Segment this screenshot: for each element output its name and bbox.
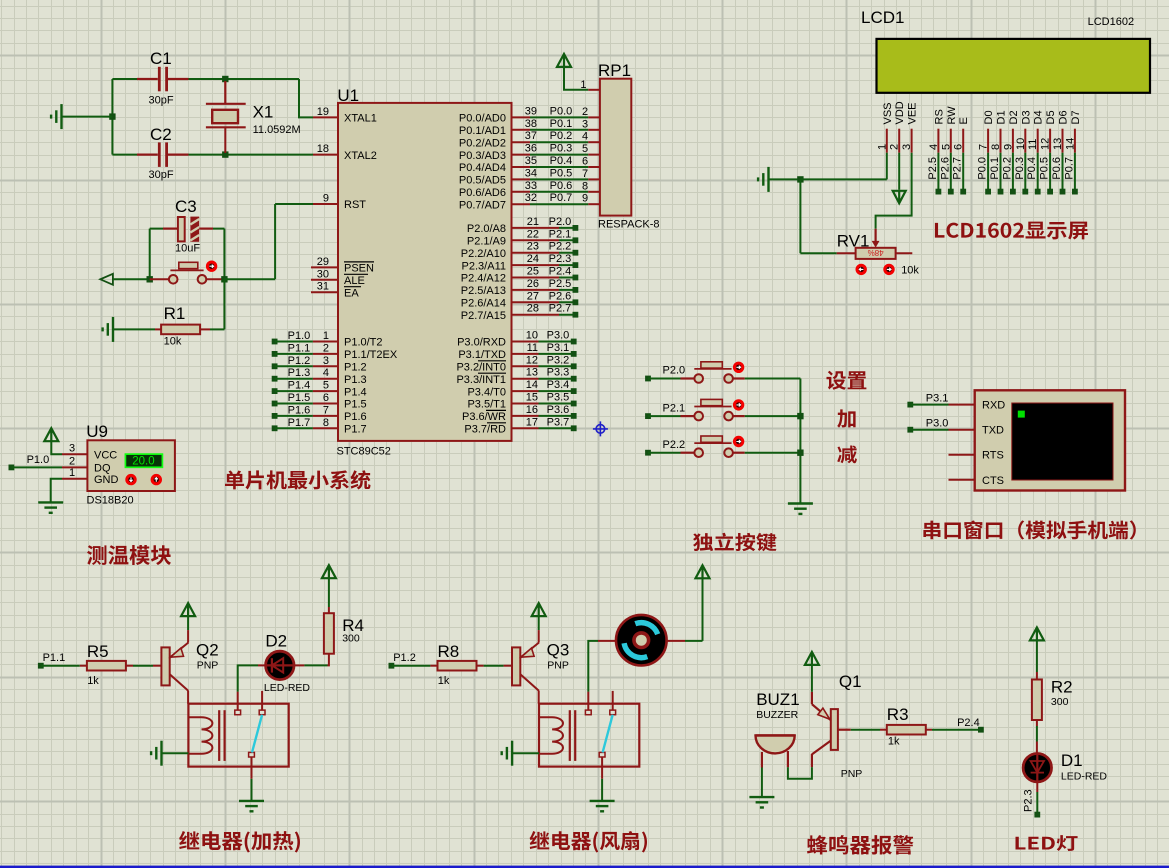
wire crystal top lead <box>224 81 226 104</box>
wire RV1 right lead <box>896 252 913 254</box>
wire C1 left <box>112 78 137 80</box>
wire to XTAL1 pin <box>299 79 313 117</box>
terminal P2.3 <box>1034 812 1040 818</box>
ground (RL2 switch) <box>590 801 615 811</box>
svg-text:RW: RW <box>946 106 958 125</box>
wire Q2 collector to relay <box>187 691 189 704</box>
svg-text:P0.3/AD3: P0.3/AD3 <box>459 150 506 162</box>
wire C2 to XTAL2 <box>189 154 314 156</box>
wire LCD D4 to net P0.4 <box>1037 153 1039 192</box>
pin stub U9 1 <box>62 478 87 480</box>
resistor R2 <box>1032 680 1042 721</box>
wire D2 right lead <box>294 664 304 666</box>
svg-text:EA: EA <box>344 287 359 299</box>
terminal arrow (reset net) <box>100 274 113 285</box>
svg-text:RXD: RXD <box>982 400 1005 412</box>
svg-text:1k: 1k <box>438 675 450 687</box>
svg-text:RV1: RV1 <box>837 232 870 251</box>
wire LCD RW to net P2.6 <box>950 153 952 192</box>
svg-text:P3.0: P3.0 <box>547 330 570 342</box>
wire D1 top lead <box>1036 742 1038 754</box>
push button P2.2 <box>645 450 651 456</box>
svg-text:P2.0/A8: P2.0/A8 <box>467 223 506 235</box>
svg-text:34: 34 <box>525 167 537 179</box>
pin stub U9 2 <box>62 466 87 468</box>
svg-text:P3.2/INT0: P3.2/INT0 <box>456 362 506 374</box>
wire LCD D6 to net P0.6 <box>1062 153 1064 192</box>
svg-text:P2.1: P2.1 <box>549 228 572 240</box>
wire Q3 collector to relay <box>538 691 540 704</box>
svg-text:C1: C1 <box>150 49 172 68</box>
wire R8 right lead <box>477 665 484 667</box>
svg-text:P3.3/INT1: P3.3/INT1 <box>456 374 506 386</box>
wire RL2 terminal up (red) <box>587 692 589 711</box>
transistor Q3 (PNP) <box>512 647 520 685</box>
wire LCD D7 to net P0.7 <box>1074 153 1076 192</box>
wire button to RST net <box>224 278 275 280</box>
wire LCD D2 to net P0.2 <box>1012 153 1014 192</box>
svg-text:P3.4/T0: P3.4/T0 <box>467 386 506 398</box>
push button (reset) <box>169 262 206 283</box>
svg-text:RESPACK-8: RESPACK-8 <box>598 219 660 231</box>
resistor R1 <box>161 325 200 335</box>
wire fan left lead <box>598 640 616 642</box>
terminal P1.1 <box>38 663 44 669</box>
wire Q1 base to R3 <box>851 729 880 731</box>
svg-text:LED-RED: LED-RED <box>1061 771 1108 783</box>
svg-text:15: 15 <box>526 392 538 404</box>
wire R3 right lead <box>926 729 932 731</box>
svg-text:5: 5 <box>582 143 588 155</box>
power +5V (Q2) <box>181 603 195 616</box>
svg-text:10: 10 <box>1015 138 1027 150</box>
svg-text:P2.6: P2.6 <box>939 157 951 180</box>
LED D1 <box>1023 753 1051 783</box>
wire crystal bottom lead <box>224 127 226 153</box>
wire RL2 switch to ground <box>601 779 603 801</box>
wire ground to junction <box>769 178 801 180</box>
svg-text:P1.4: P1.4 <box>344 386 367 398</box>
svg-text:P1.3: P1.3 <box>344 374 367 386</box>
wire RST horizontal <box>275 203 313 205</box>
svg-text:P2.6/A14: P2.6/A14 <box>461 298 506 310</box>
wire P3.1 to RXD <box>910 404 948 406</box>
svg-text:P0.3: P0.3 <box>1014 157 1026 180</box>
MCU U1 body (STC89C52) <box>338 103 512 441</box>
svg-text:VEE: VEE <box>907 102 919 124</box>
svg-text:P1.7: P1.7 <box>344 424 367 436</box>
wire RL2 to fan <box>588 641 598 692</box>
svg-text:D7: D7 <box>1070 110 1082 124</box>
svg-text:P0.6: P0.6 <box>1051 157 1063 180</box>
wire power to VCC <box>51 441 62 454</box>
wire junction down to RV1 <box>799 179 801 253</box>
svg-text:3: 3 <box>582 118 588 130</box>
pin stub XTAL2 (18) <box>313 154 338 156</box>
wire RL1 switch down (red) <box>251 757 253 779</box>
wire power to R2 <box>1036 640 1038 672</box>
svg-text:P1.0: P1.0 <box>288 330 311 342</box>
svg-text:P0.7: P0.7 <box>550 192 573 204</box>
wire Q3 base lead <box>504 665 512 667</box>
fan motor <box>616 615 667 666</box>
svg-text:P0.2: P0.2 <box>1001 157 1013 180</box>
svg-text:25: 25 <box>527 266 539 278</box>
wire C1 right lead <box>168 78 189 80</box>
resistor R8 <box>438 661 477 671</box>
svg-text:R1: R1 <box>164 304 186 323</box>
capacitor C2 <box>159 142 166 167</box>
svg-text:36: 36 <box>525 143 537 155</box>
wire P1.0 to DQ <box>11 466 62 468</box>
red actuator (P2.2 button) <box>734 437 742 445</box>
label 独立按键 <box>693 533 776 552</box>
wire button left lead <box>150 278 169 280</box>
svg-text:P1.4: P1.4 <box>288 380 311 392</box>
svg-text:P2.7: P2.7 <box>549 303 572 315</box>
wire LCD VDD down <box>898 153 900 190</box>
svg-text:P3.6: P3.6 <box>547 404 570 416</box>
label 加 <box>837 409 855 427</box>
svg-text:30pF: 30pF <box>149 95 174 107</box>
svg-text:D6: D6 <box>1058 110 1070 124</box>
wire D2 left lead <box>258 664 266 666</box>
svg-text:1: 1 <box>580 79 586 91</box>
svg-text:P1.6: P1.6 <box>288 404 311 416</box>
svg-text:P2.3: P2.3 <box>1023 789 1035 812</box>
node VSS/RV1 junction <box>797 176 803 182</box>
svg-text:12: 12 <box>1040 138 1052 150</box>
pin stub XTAL1 (19) <box>313 116 338 118</box>
wire buzzer to ground <box>761 768 763 798</box>
svg-text:P2.1/A9: P2.1/A9 <box>467 236 506 248</box>
svg-text:P2.7/A15: P2.7/A15 <box>461 310 506 322</box>
label 设置 <box>826 371 866 390</box>
wire R5 left lead <box>80 665 87 667</box>
svg-text:P2.3/A11: P2.3/A11 <box>462 260 506 272</box>
wire R5 right lead <box>126 665 133 667</box>
svg-text:P1.1: P1.1 <box>288 342 311 354</box>
wire P1.1 to R5 <box>41 665 80 667</box>
label 减 <box>837 446 857 464</box>
svg-text:P3.3: P3.3 <box>547 367 570 379</box>
capacitor C1 <box>159 67 166 92</box>
wire C3 right <box>213 228 224 230</box>
ground (LCD VSS) <box>758 167 768 192</box>
svg-text:GND: GND <box>94 474 119 486</box>
wire R1 right lead <box>200 328 210 330</box>
pin stub RXD <box>949 404 975 406</box>
red actuator U9 down <box>127 475 135 483</box>
svg-text:6: 6 <box>582 156 588 168</box>
svg-text:RTS: RTS <box>982 450 1004 462</box>
label 串口窗口（模拟手机端） <box>923 520 1135 539</box>
pin stub RST (9) <box>313 203 338 205</box>
svg-text:STC89C52: STC89C52 <box>337 445 391 457</box>
wire RL1 switch to ground <box>251 779 253 801</box>
U1 P2 pins wires <box>512 227 560 229</box>
svg-text:D2: D2 <box>1008 110 1020 124</box>
svg-text:P2.3: P2.3 <box>549 253 572 265</box>
svg-text:P1.2: P1.2 <box>344 362 367 374</box>
svg-text:ALE: ALE <box>344 275 365 287</box>
red actuator (reset button) <box>207 262 215 270</box>
wire R4 to power <box>328 578 330 607</box>
svg-text:14: 14 <box>526 379 538 391</box>
wire RL1 to D2 <box>238 665 258 691</box>
ground (RL2 coil) <box>502 741 512 766</box>
wire R4 top lead <box>328 607 330 613</box>
wire Q1 emitter to power <box>811 665 813 692</box>
resistor pack RP1 body <box>600 79 631 216</box>
svg-text:P2.7: P2.7 <box>952 157 964 180</box>
red actuator RV1 left <box>857 265 865 273</box>
svg-text:P0.3: P0.3 <box>550 143 573 155</box>
U1 P0 pins to RP1 wires <box>512 116 531 118</box>
svg-text:R5: R5 <box>87 642 109 661</box>
power terminal (VDD, down arrow) <box>893 191 906 203</box>
svg-text:4: 4 <box>582 131 588 143</box>
svg-text:24: 24 <box>527 253 539 265</box>
svg-text:P0.4: P0.4 <box>1026 157 1038 180</box>
resistor R5 <box>87 661 126 671</box>
wire R8 to Q3 base <box>484 665 504 667</box>
wire Q1 collector lead <box>811 754 813 767</box>
power +5V (Q3) <box>532 603 546 616</box>
svg-text:RP1: RP1 <box>598 61 631 80</box>
svg-text:P3.7: P3.7 <box>547 416 570 428</box>
label LCD1602显示屏 <box>935 222 1088 240</box>
svg-text:P1.5: P1.5 <box>288 392 311 404</box>
svg-text:P2.0: P2.0 <box>663 365 686 377</box>
RV1 wiper arrow <box>872 229 880 248</box>
terminal P2.4 <box>978 727 984 733</box>
svg-text:3: 3 <box>69 442 75 454</box>
wire LCD D1 to net P0.1 <box>1000 153 1002 192</box>
svg-text:9: 9 <box>582 193 588 205</box>
svg-text:11.0592M: 11.0592M <box>253 124 301 136</box>
svg-text:DS18B20: DS18B20 <box>87 495 134 507</box>
svg-text:P3.6/WR: P3.6/WR <box>462 411 506 423</box>
power +5V (Q1) <box>805 652 819 665</box>
virtual terminal body <box>975 390 1125 490</box>
wire caps left vertical <box>111 79 113 155</box>
XTAL1 pin arrow <box>339 113 345 121</box>
svg-text:P0.4/AD4: P0.4/AD4 <box>459 162 506 174</box>
svg-text:9: 9 <box>1002 144 1014 150</box>
pin stub U9 3 <box>62 453 87 455</box>
svg-text:5: 5 <box>940 144 952 150</box>
svg-text:P1.0/T2: P1.0/T2 <box>344 337 383 349</box>
svg-text:P1.1: P1.1 <box>43 652 66 664</box>
wire button right lead <box>206 278 224 280</box>
wire C2 left <box>112 154 137 156</box>
svg-text:P2.1: P2.1 <box>663 402 686 414</box>
svg-text:DQ: DQ <box>94 463 111 475</box>
svg-text:P0.6: P0.6 <box>550 180 573 192</box>
svg-text:7: 7 <box>582 168 588 180</box>
svg-text:R8: R8 <box>438 642 460 661</box>
red actuator U9 up <box>152 475 160 483</box>
transistor Q1 (PNP) <box>812 704 838 754</box>
svg-text:P0.4: P0.4 <box>550 155 573 167</box>
wire RV1 left lead <box>837 252 856 254</box>
wire R3 left lead <box>880 729 887 731</box>
svg-text:CTS: CTS <box>982 475 1004 487</box>
wire LCD D3 to net P0.3 <box>1024 153 1026 192</box>
wire LCD VEE to RV1 wiper <box>876 153 912 229</box>
svg-text:P3.0: P3.0 <box>926 418 949 430</box>
potentiometer RV1 body <box>856 248 896 259</box>
terminal cursor <box>1018 411 1025 418</box>
svg-text:P3.1: P3.1 <box>926 393 949 405</box>
svg-text:7: 7 <box>323 404 329 416</box>
svg-text:U9: U9 <box>86 422 108 441</box>
wire power to Q3 emitter <box>538 616 540 630</box>
wire buzzer left leg <box>761 752 763 768</box>
svg-text:21: 21 <box>527 216 539 228</box>
svg-text:P0.0: P0.0 <box>550 105 573 117</box>
wire C2 left lead <box>137 154 158 156</box>
LCD1602 screen <box>877 39 1151 93</box>
svg-text:P2.5/A13: P2.5/A13 <box>461 285 506 297</box>
svg-text:10k: 10k <box>901 265 919 277</box>
svg-text:3: 3 <box>323 355 329 367</box>
virtual terminal screen <box>1012 403 1113 480</box>
wire R8 left lead <box>430 665 437 667</box>
svg-text:38: 38 <box>525 118 537 130</box>
wire power to Q2 emitter <box>187 616 189 630</box>
label 单片机最小系统 <box>225 470 371 489</box>
wire RL1 terminal up (red) <box>237 692 239 711</box>
red actuator RV1 right <box>885 265 893 273</box>
svg-text:P1.1/T2EX: P1.1/T2EX <box>344 349 398 361</box>
svg-text:C2: C2 <box>150 125 172 144</box>
power +5V (fan) <box>696 565 710 578</box>
svg-text:13: 13 <box>526 367 538 379</box>
wire Q2 base lead <box>153 665 161 667</box>
power +5V (R4) <box>322 565 336 578</box>
wire C2 right lead <box>168 154 189 156</box>
svg-text:1k: 1k <box>888 736 900 748</box>
wire C3 to button left <box>149 229 151 280</box>
buzzer BUZ1 <box>756 735 795 753</box>
svg-text:1: 1 <box>69 467 75 479</box>
svg-text:PNP: PNP <box>547 660 569 672</box>
svg-text:P1.6: P1.6 <box>344 411 367 423</box>
svg-text:XTAL1: XTAL1 <box>344 113 377 125</box>
wire D1 to P2.3 <box>1036 792 1038 815</box>
svg-text:300: 300 <box>342 633 360 645</box>
label LED灯 <box>1015 835 1077 851</box>
power +5V (U9) <box>44 428 58 441</box>
ground (R1) <box>103 317 113 342</box>
window bottom edge <box>0 866 1169 868</box>
transistor Q2 (PNP) <box>161 647 169 685</box>
node bus/P2.1 <box>797 413 803 419</box>
svg-text:P0.5: P0.5 <box>550 167 573 179</box>
svg-text:P0.7: P0.7 <box>1063 157 1075 180</box>
ground (U9) <box>38 502 63 512</box>
svg-text:Q1: Q1 <box>839 672 862 691</box>
crystal X1 <box>206 104 246 128</box>
svg-text:BUZZER: BUZZER <box>756 709 798 721</box>
ground (RL1 coil) <box>151 741 161 766</box>
wire RL2 switch down (red) <box>601 757 603 779</box>
wire D2 to R4 <box>304 664 327 666</box>
svg-text:R3: R3 <box>887 705 909 724</box>
LED D2 <box>266 651 294 679</box>
sensor U9 DS18B20 body <box>87 440 174 491</box>
svg-text:16: 16 <box>526 404 538 416</box>
svg-text:48%: 48% <box>868 248 884 257</box>
wire R1 to button net <box>210 328 224 330</box>
wire Q3 emitter lead <box>538 630 540 642</box>
pin stub CTS <box>949 479 975 481</box>
svg-text:XTAL2: XTAL2 <box>344 150 377 162</box>
svg-text:19: 19 <box>317 106 329 118</box>
power +5V (R2) <box>1030 627 1044 640</box>
svg-text:23: 23 <box>527 241 539 253</box>
svg-text:27: 27 <box>527 290 539 302</box>
svg-text:35: 35 <box>525 155 537 167</box>
U9 temperature display 20.0 <box>125 454 162 467</box>
wire C3 right lead <box>199 228 213 230</box>
svg-text:33: 33 <box>525 180 537 192</box>
wire power to RP1 pin1 <box>564 67 588 90</box>
svg-text:1k: 1k <box>87 675 99 687</box>
svg-text:29: 29 <box>317 256 329 268</box>
label 继电器(加热) <box>179 831 300 853</box>
red actuator (P2.0 button) <box>734 363 742 371</box>
svg-text:P3.2: P3.2 <box>547 354 570 366</box>
wire LCD VSS down <box>886 153 888 180</box>
svg-text:PNP: PNP <box>197 660 219 672</box>
wire LCD D5 to net P0.5 <box>1049 153 1051 192</box>
wire P3.0 to TXD <box>910 429 948 431</box>
svg-text:RS: RS <box>933 109 945 124</box>
svg-text:10k: 10k <box>164 336 182 348</box>
pin stub RP1 pin1 <box>588 89 600 91</box>
terminal P1.2 <box>389 663 395 669</box>
ground (crystal caps) <box>51 104 61 129</box>
svg-text:E: E <box>958 117 970 124</box>
wire R1 left lead <box>155 328 161 330</box>
svg-text:P0.2: P0.2 <box>550 130 573 142</box>
wire fan right lead <box>666 640 685 642</box>
wire R2 top lead <box>1036 672 1038 680</box>
terminal P3.0 <box>907 427 913 433</box>
wire R5 to Q2 base <box>133 665 153 667</box>
svg-text:PNP: PNP <box>841 768 863 780</box>
svg-text:P2.2: P2.2 <box>663 439 686 451</box>
wire C1 left lead <box>137 78 158 80</box>
svg-text:26: 26 <box>527 278 539 290</box>
svg-text:P1.2: P1.2 <box>288 355 311 367</box>
svg-text:37: 37 <box>525 130 537 142</box>
svg-text:R2: R2 <box>1051 678 1073 697</box>
svg-text:X1: X1 <box>253 103 274 122</box>
svg-text:D3: D3 <box>1020 110 1032 124</box>
wire ground to RL2 coil <box>512 752 539 754</box>
node ground/caps junction <box>109 113 115 119</box>
svg-text:4: 4 <box>323 367 329 379</box>
svg-text:P0.2/AD2: P0.2/AD2 <box>459 137 506 149</box>
svg-text:4: 4 <box>928 144 940 150</box>
svg-text:30: 30 <box>317 268 329 280</box>
svg-text:2: 2 <box>889 144 901 150</box>
svg-text:P3.0/RXD: P3.0/RXD <box>457 337 506 349</box>
